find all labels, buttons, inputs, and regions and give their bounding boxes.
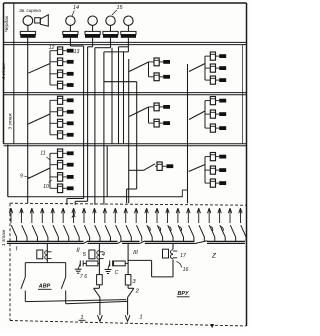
feeder switch 23 (241, 225, 246, 241)
dashed room bottom edge (10, 321, 246, 327)
label AVR (38, 284, 52, 290)
bell HA1 (23, 16, 33, 32)
wire bus I feeder (46, 243, 48, 262)
ground for C6 (75, 269, 82, 273)
detector A4.2 (50, 160, 67, 169)
label bus III (133, 250, 138, 256)
snubber branch II wire (83, 262, 99, 264)
AVR output rail 1 (25, 300, 126, 302)
detector C3.2 (205, 110, 219, 118)
feeder arrow 23 (239, 208, 242, 223)
fuse FU3 (163, 249, 169, 258)
feeder arrow 17 (176, 208, 179, 223)
svg-text:15: 15 (117, 5, 124, 11)
plug connector FU2 (97, 251, 104, 260)
wire riser x118 (119, 47, 129, 144)
feeder arrow 5 (51, 208, 54, 223)
group A2 bus wire (49, 51, 51, 85)
group A3 bus wire (49, 100, 51, 135)
busbar section II (88, 241, 118, 243)
svg-text:4: 4 (102, 252, 105, 258)
exit arrow bottom right (211, 324, 214, 327)
feeder arrow 12 (124, 208, 127, 223)
feeder arrow 18 (187, 208, 190, 223)
plug connector FU1 (45, 251, 52, 260)
wire jog above room 2 (75, 201, 87, 205)
fuse FU2 (89, 250, 95, 259)
detector B2.2 resistor bar (163, 75, 170, 79)
feeder arrow 3 (30, 208, 33, 223)
feeder arrow 21 (218, 208, 221, 223)
switch left feeder (94, 288, 100, 297)
label 10 (43, 180, 52, 190)
wire right trunk A (128, 59, 130, 203)
detector B3.1 (149, 103, 164, 111)
resistor R3 (125, 275, 131, 285)
group C2 bus wire (204, 56, 206, 80)
label 7 6 (80, 274, 87, 280)
floor label 3 etazh (8, 113, 14, 130)
siren horn (35, 15, 49, 27)
detector A3.1 (50, 96, 67, 104)
busbar section Z (207, 241, 245, 243)
feeder switch 7 (74, 225, 79, 241)
bypass wire III-IV (128, 260, 173, 277)
floor divider D2 (4, 93, 247, 95)
detector A3.3 (50, 119, 67, 127)
frame top border (4, 2, 247, 4)
wire lamp4 riser (104, 38, 128, 205)
feeder arrow 7 (72, 208, 75, 223)
group B4 feed switch (129, 164, 155, 171)
floor label 4 etazh (1, 63, 7, 80)
feeder switch 9 (95, 225, 100, 241)
group A4 feed switch (28, 168, 50, 179)
feeder arrow 14 (145, 208, 148, 223)
resistor R-III (114, 261, 126, 266)
group C3 feed switch (189, 111, 205, 120)
detector A4.4 resistor bar (67, 186, 74, 190)
feeder switch 17 (178, 225, 183, 241)
feeder arrow 15 (155, 208, 158, 223)
feeder switch 15 (157, 225, 162, 241)
detector A4.1 (50, 149, 67, 158)
switch right feeder (128, 288, 134, 297)
detector A2.1 (50, 47, 67, 55)
wire riser x107 (106, 146, 108, 197)
AVR left contact (21, 263, 25, 302)
svg-text:Z: Z (211, 253, 217, 260)
label column line (13, 3, 15, 144)
feeder arrow 20 (207, 208, 210, 223)
svg-text:13: 13 (74, 49, 80, 55)
floor divider D1 (4, 42, 247, 44)
svg-text:ВРУ: ВРУ (178, 291, 189, 297)
bus link III-IV (140, 241, 145, 244)
wire right down arrow (125, 297, 130, 321)
detector B3.1 resistor bar (163, 105, 170, 109)
feeder switch 20 (209, 225, 214, 241)
detector C2.3 (205, 76, 219, 84)
label 11 (40, 151, 50, 161)
label 12 (49, 45, 55, 51)
detector A4.3 resistor bar (67, 175, 74, 179)
label 13 (74, 49, 80, 55)
floor label Cherdak (4, 15, 10, 32)
feeder arrow 9 (93, 208, 96, 223)
lamp HL4 (124, 16, 133, 31)
label bus I (16, 246, 18, 253)
group A2 feed switch (28, 64, 50, 74)
detector C3.3 resistor bar (219, 126, 226, 130)
svg-text:7 6: 7 6 (80, 274, 87, 280)
feeder arrow 13 (134, 208, 137, 223)
fuse FU1 (37, 250, 43, 259)
group C2 feed switch (189, 64, 205, 72)
feeder arrow 8 (82, 208, 85, 223)
wire bell riser (27, 38, 29, 203)
floor divider D3 (4, 144, 247, 146)
detector A4.1 resistor bar (67, 151, 74, 155)
wire riser x112 (111, 48, 113, 144)
group C4 feed switch (189, 165, 205, 172)
detector B2.1 (149, 58, 164, 66)
label 5 (83, 252, 87, 258)
detector A2.4 resistor bar (67, 83, 74, 87)
bus link II-III (118, 241, 123, 244)
lamp HL2 (88, 16, 97, 31)
detector A4.2 resistor bar (67, 163, 74, 167)
group C4 bus wire (204, 157, 206, 184)
detector B2.2 (149, 73, 164, 81)
wire left down arrow (98, 297, 103, 321)
label C (115, 270, 119, 276)
detector A2.1 resistor bar (67, 49, 74, 53)
feeder arrow 1 (9, 208, 12, 223)
detector A3.4 (50, 131, 67, 139)
svg-text:III: III (133, 250, 138, 256)
detector A2.3 resistor bar (67, 72, 74, 76)
detector A4.4 (50, 184, 67, 193)
label bus Z (211, 253, 217, 260)
feeder arrow 2 (20, 208, 23, 223)
text Zv. sirena (19, 8, 41, 13)
label 17 (180, 253, 187, 259)
AVR output rail 2 (66, 301, 128, 303)
svg-text:12: 12 (49, 45, 55, 51)
lamp HL3 (106, 16, 115, 31)
label VRU (177, 291, 190, 297)
busbar section III (122, 241, 140, 243)
detector A2.3 (50, 70, 67, 78)
label 9 (20, 174, 29, 180)
detector C4.3 (205, 179, 219, 187)
detector C3.2 resistor bar (219, 112, 226, 116)
feeder switch 11 (116, 225, 121, 241)
detector C4.3 resistor bar (219, 181, 226, 185)
wire lamp2 riser (88, 38, 93, 202)
svg-text:17: 17 (180, 253, 187, 259)
detector A2.2 (50, 58, 67, 66)
detector C4.2 resistor bar (219, 168, 226, 172)
feeder switch 6 (63, 225, 68, 241)
feeder switch 3 (32, 225, 37, 241)
group A3 feed switch (28, 114, 50, 124)
capacitor C6 (78, 260, 83, 269)
wire branch y81 (104, 82, 137, 204)
feeder switch 8 (84, 225, 89, 241)
detector B4.1 (155, 162, 167, 170)
group A4 bus wire (49, 153, 51, 188)
svg-text:1 этаж: 1 этаж (1, 229, 7, 246)
detector C3.3 (205, 124, 219, 132)
wire right trunk B (182, 64, 187, 203)
svg-text:Зв. сирена: Зв. сирена (19, 8, 41, 13)
junction mark (72, 213, 75, 217)
label 14 (72, 5, 79, 17)
detector A3.1 resistor bar (67, 98, 74, 102)
wire riser x123 (123, 52, 125, 144)
bell terminal block (20, 31, 35, 37)
wire right feeder lower (128, 285, 134, 288)
detector C2.2 (205, 64, 219, 72)
dashed room top edge (10, 203, 246, 205)
label 3 (132, 279, 136, 285)
lamp HL1 terminal block (63, 31, 78, 37)
label 1 left (79, 315, 86, 321)
detector B4.1 resistor bar (167, 164, 174, 168)
feeder switch 22 (230, 225, 235, 241)
label 2 (135, 289, 140, 295)
feeder arrow 11 (114, 208, 117, 223)
frame left border band4 (7, 145, 9, 197)
feeder switch 1 (11, 225, 16, 241)
floor label 1 etazh (1, 229, 7, 246)
group B2 bus wire (148, 62, 150, 77)
feeder switch 4 (43, 225, 48, 241)
feeder switch 13 (136, 225, 141, 241)
svg-text:9: 9 (20, 174, 23, 180)
detector B3.2 (149, 119, 164, 127)
label 15 (112, 5, 123, 15)
feeder arrow 10 (103, 208, 106, 223)
capacitor C (108, 260, 113, 269)
svg-text:3 этаж: 3 этаж (8, 113, 14, 130)
wire lamp3 riser (95, 38, 111, 205)
wire bus III feeder (127, 243, 129, 274)
lamp HL2 terminal block (85, 31, 100, 37)
label 4 (102, 252, 105, 258)
feeder switch 2 (22, 225, 27, 241)
feeder arrow 6 (61, 208, 64, 223)
group B3 feed switch (129, 107, 148, 117)
group B2 feed switch (129, 62, 148, 72)
frame right border (246, 3, 248, 326)
detector C3.1 resistor bar (219, 99, 226, 103)
bus link IV-Z (195, 241, 208, 244)
wire bus IV feeder (172, 243, 174, 249)
wire left feeder lower (94, 285, 100, 289)
detector C4.1 resistor bar (219, 155, 226, 159)
detector A2.2 resistor bar (67, 60, 74, 64)
svg-text:II: II (76, 248, 80, 254)
busbar section I (7, 241, 84, 243)
svg-text:3: 3 (132, 279, 136, 285)
ground for C (105, 270, 112, 274)
svg-text:11: 11 (40, 151, 45, 157)
svg-text:10: 10 (43, 184, 49, 190)
detector B3.2 resistor bar (163, 121, 170, 125)
wire jog above room 1 (67, 199, 84, 205)
feeder arrow 22 (228, 208, 231, 223)
detector C2.2 resistor bar (219, 66, 226, 70)
detector C2.3 resistor bar (219, 78, 226, 82)
detector C3.1 (205, 97, 219, 105)
feeder arrow 16 (166, 208, 169, 223)
svg-text:14: 14 (73, 5, 79, 11)
feeder switch 21 (220, 225, 225, 241)
feeder arrow 4 (41, 208, 44, 223)
lamp HL1 (66, 16, 75, 31)
svg-text:4 этаж: 4 этаж (1, 63, 7, 80)
svg-text:16: 16 (183, 267, 189, 273)
detector A4.3 (50, 173, 67, 182)
detector C4.1 (205, 153, 219, 161)
label 16 (177, 262, 189, 274)
floor divider D4 (8, 196, 182, 198)
detector A3.4 resistor bar (67, 133, 74, 137)
feeder switch 19 (199, 225, 204, 241)
snubber branch III wire (113, 262, 129, 264)
frame left border upper (3, 3, 5, 144)
feeder switch 14 (147, 225, 152, 241)
detector C4.2 (205, 166, 219, 174)
group C3 bus wire (204, 101, 206, 129)
feeder switch 18 (189, 225, 194, 241)
svg-text:I: I (16, 246, 18, 253)
detector C2.1 (205, 52, 219, 60)
feeder switch 16 (168, 225, 173, 241)
label 1 right (139, 315, 142, 321)
AVR right contact (61, 263, 65, 304)
lamp HL4 terminal block (121, 31, 136, 37)
detector A3.2 resistor bar (67, 110, 74, 114)
svg-text:АВР: АВР (38, 284, 51, 290)
svg-text:5: 5 (83, 252, 87, 258)
resistor R7 (86, 261, 98, 266)
feeder switch 10 (105, 225, 110, 241)
wire bus II feeder (98, 243, 100, 274)
svg-text:1: 1 (139, 315, 142, 321)
AVR top rail (25, 262, 65, 264)
svg-text:C: C (115, 270, 119, 276)
resistor R-left vertical (97, 275, 103, 285)
busbar section IV (145, 241, 195, 243)
bus link I-II (84, 241, 89, 244)
detector C2.1 resistor bar (219, 54, 226, 58)
wire right trunk C (242, 45, 244, 144)
detector A2.4 (50, 81, 67, 89)
svg-text:2: 2 (135, 289, 140, 295)
feeder switch 5 (53, 225, 58, 241)
detector A3.2 (50, 108, 67, 116)
svg-text:Чердак: Чердак (4, 15, 10, 32)
wire lamp1 riser (70, 38, 83, 199)
label bus II (76, 248, 80, 254)
plug connector FU3 (170, 250, 177, 259)
detector A3.3 resistor bar (67, 121, 74, 125)
feeder switch 12 (126, 225, 131, 241)
feeder arrow 19 (197, 208, 200, 223)
lamp HL3 terminal block (103, 31, 118, 37)
group B3 bus wire (148, 107, 150, 123)
dashed room left edge (9, 203, 11, 320)
detector B2.1 resistor bar (163, 60, 170, 64)
